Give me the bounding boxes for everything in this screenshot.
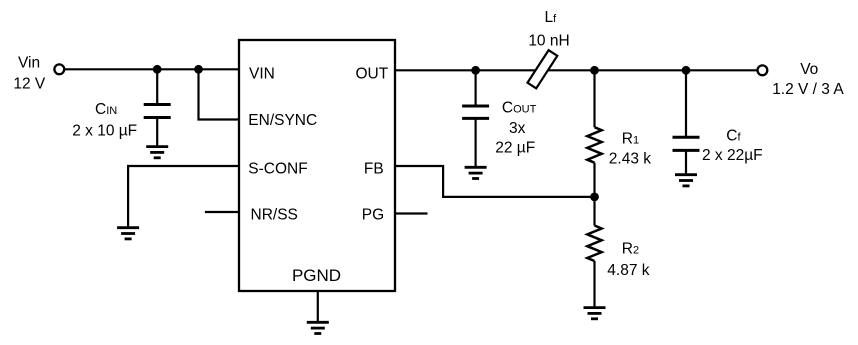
capacitor CIN value labels [72,101,137,140]
svg-text:10 nH: 10 nH [528,33,569,50]
svg-text:S-CONF: S-CONF [248,160,307,177]
wire EN/SYNC branch [199,69,240,119]
wire output rail OUT pin to Vo [395,69,758,71]
resistor R2 zigzag [587,226,601,262]
ground below PGND [307,322,329,333]
wire R1 bottom lead [593,163,595,197]
svg-text:PG: PG [362,207,384,224]
ground below S-CONF [117,228,139,239]
junction at R1 top [590,66,599,75]
wire R2 to ground [593,261,595,308]
svg-text:PGND: PGND [292,266,341,285]
svg-text:FB: FB [364,160,384,177]
junction at CIN top [153,65,162,74]
wire NR/SS stub [205,211,239,213]
wire R2 top lead [593,197,595,226]
svg-text:22 µF: 22 µF [495,139,535,156]
wire S-CONF to ground [128,166,239,228]
svg-text:12 V: 12 V [13,76,46,93]
resistor R1 zigzag [587,127,601,163]
wire COUT to ground [475,118,477,167]
svg-text:EN/SYNC: EN/SYNC [248,112,317,129]
svg-text:2 x 22µF: 2 x 22µF [702,147,763,164]
op-amp U1 regulator box [239,40,395,291]
node Vo terminal labels [772,61,844,98]
ground below R2 [584,308,606,319]
resistor R1 labels [609,131,651,168]
wire CIN branch [156,69,158,104]
ground below Cf [675,175,697,186]
svg-text:1.2 V / 3 A: 1.2 V / 3 A [772,81,844,98]
wire PG stub [395,212,428,214]
svg-text:Vin: Vin [18,54,40,71]
svg-text:2 x 10 µF: 2 x 10 µF [72,123,137,140]
node Vin terminal circle [54,64,64,74]
svg-text:OUT: OUT [355,66,388,83]
wire FB route to divider [395,166,595,197]
junction at EN/SYNC branch [194,65,203,74]
ground below CIN [146,147,168,158]
inductor Lf labels [528,9,569,49]
svg-text:3x: 3x [509,120,526,137]
capacitor Cf [673,137,700,150]
junction at Cf top [682,66,691,75]
svg-text:Vo: Vo [800,61,818,78]
ground below COUT [465,167,487,178]
wire input rail Vin to VIN pin [65,68,239,70]
svg-text:2.43 k: 2.43 k [609,151,651,168]
node Vo terminal circle [758,65,768,75]
wire Cf to ground [685,150,687,174]
wire COUT branch [475,70,477,106]
capacitor Cf value labels [702,127,763,164]
svg-text:NR/SS: NR/SS [251,207,298,224]
wire PGND to ground [317,291,319,322]
inductor Lf (tilted rectangle) [527,50,557,88]
capacitor COUT [462,106,489,118]
junction at FB divider node [590,193,599,202]
node Vin terminal labels [13,54,46,92]
junction at COUT top [471,66,480,75]
svg-text:VIN: VIN [249,66,275,83]
capacitor CIN [144,105,171,118]
wire CIN to ground [156,118,158,147]
wire Cf branch [685,70,687,137]
capacitor COUT value labels [495,99,536,156]
wire R1 top lead [593,70,595,127]
svg-text:4.87 k: 4.87 k [607,262,649,279]
resistor R2 labels [607,240,649,278]
